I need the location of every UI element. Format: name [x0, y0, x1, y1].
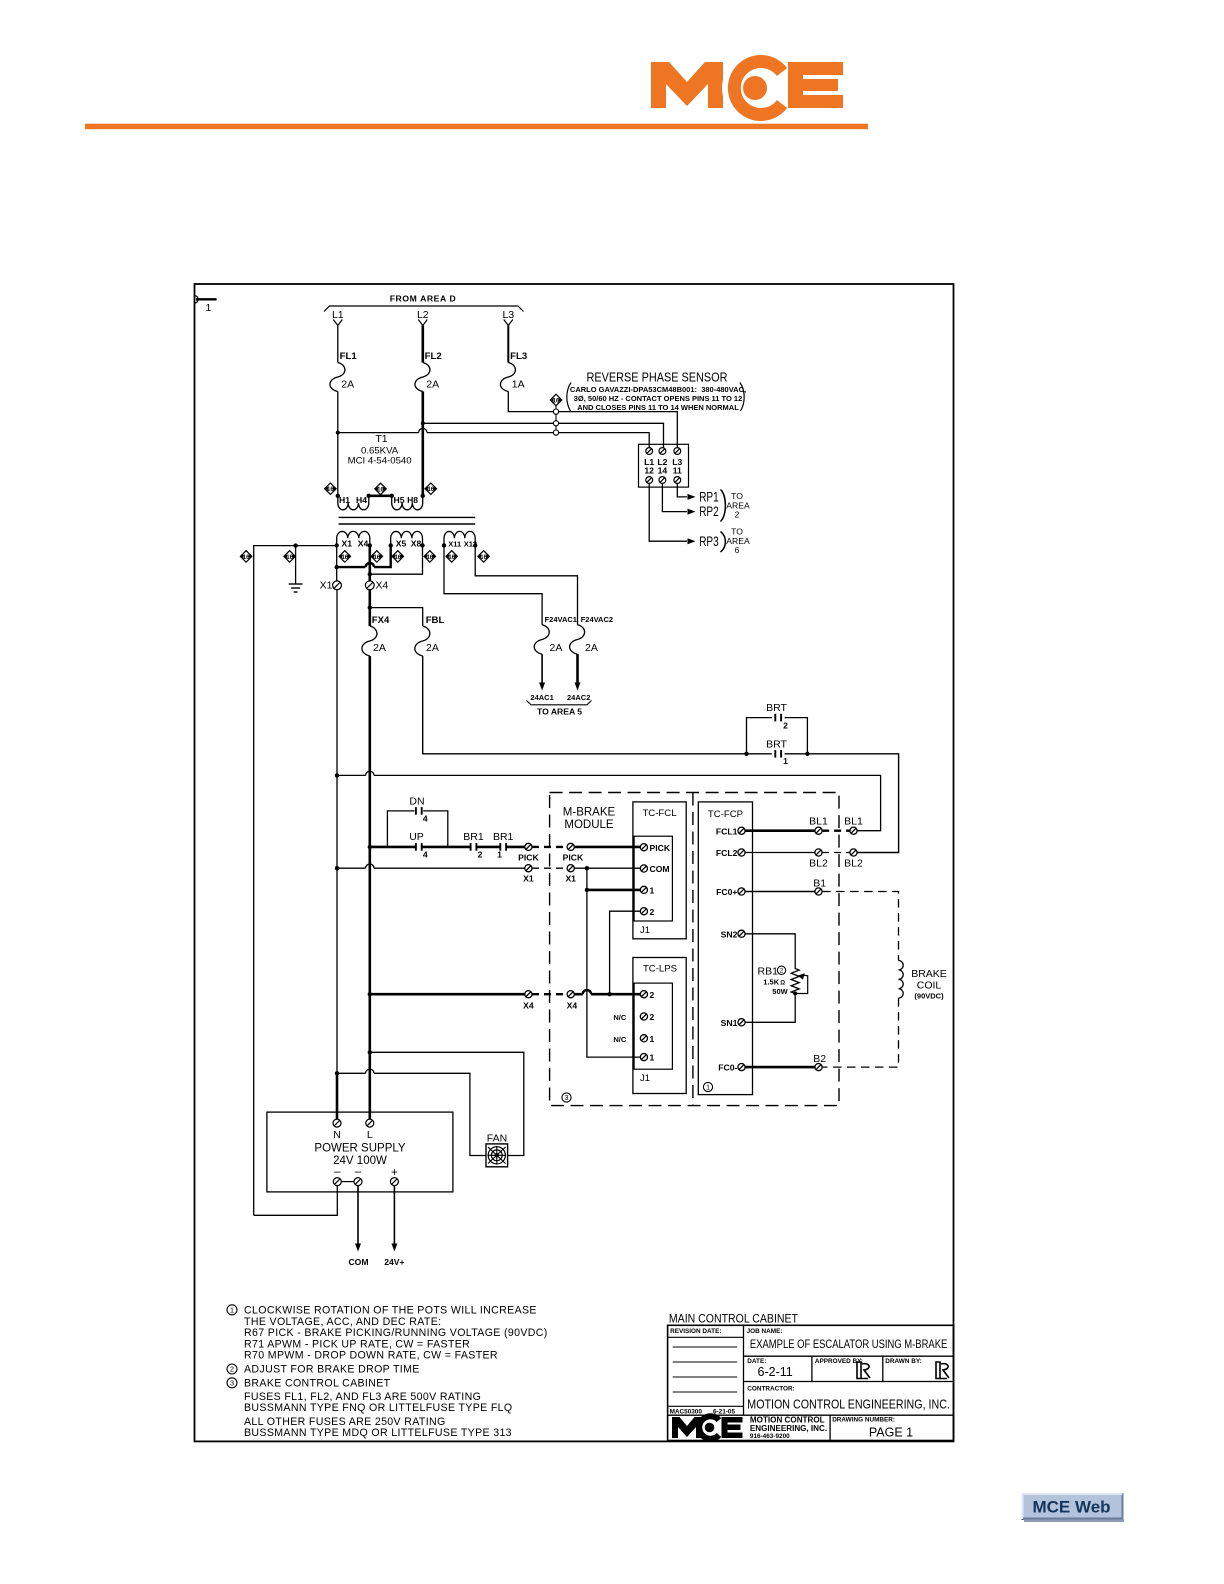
connector J1 TC-LPS: [634, 983, 672, 1069]
svg-text:1: 1: [650, 1034, 655, 1044]
svg-text:SN1: SN1: [721, 1018, 738, 1028]
svg-text:RP2: RP2: [699, 504, 719, 519]
svg-text:BR1: BR1: [463, 831, 484, 843]
svg-text:Ω: Ω: [780, 980, 785, 986]
svg-text:DRAWING NUMBER:: DRAWING NUMBER:: [832, 1417, 895, 1424]
note 3 marker: [562, 1093, 571, 1102]
terminal FC0-: [738, 1064, 745, 1071]
svg-text:MCE Web: MCE Web: [1032, 1498, 1110, 1517]
svg-text:4: 4: [423, 813, 428, 823]
connector J1 TC-FCL: [634, 836, 672, 921]
svg-text:MAIN CONTROL CABINET: MAIN CONTROL CABINET: [669, 1314, 798, 1326]
svg-text:EXAMPLE OF ESCALATOR USING M-B: EXAMPLE OF ESCALATOR USING M-BRAKE: [750, 1339, 948, 1351]
svg-text:MAC50300: MAC50300: [670, 1409, 703, 1416]
svg-text:J1: J1: [640, 1073, 650, 1084]
wire X11 to F24VAC1: [444, 545, 542, 624]
wire L3 drop: [507, 326, 509, 363]
svg-text:24AC2: 24AC2: [567, 693, 590, 702]
svg-text:2: 2: [780, 968, 784, 975]
op TC-FCL board: [633, 802, 686, 939]
wire B1 to brake coil (dashed): [822, 892, 898, 961]
svg-text:TC-FCP: TC-FCP: [708, 809, 743, 820]
wire COM junction to terminal 1: [586, 868, 588, 890]
svg-text:J1: J1: [640, 925, 650, 936]
svg-text:1: 1: [230, 1306, 234, 1315]
svg-text:1.5K: 1.5K: [763, 977, 779, 986]
terminal BL2 inner: [815, 849, 822, 856]
svg-text:X1: X1: [342, 538, 353, 548]
wire FC0+ to B1: [745, 891, 815, 893]
T1 secondary winding X5-X8: [391, 531, 423, 545]
svg-text:BRT: BRT: [766, 702, 787, 714]
svg-text:16: 16: [377, 487, 384, 493]
svg-text:CONTRACTOR:: CONTRACTOR:: [747, 1385, 794, 1392]
svg-text:1: 1: [650, 1053, 655, 1063]
svg-text:N/C: N/C: [613, 1035, 627, 1044]
terminal L: [366, 1119, 374, 1127]
svg-text:X8: X8: [411, 538, 422, 548]
svg-text:1: 1: [206, 302, 212, 314]
svg-text:T1: T1: [375, 433, 387, 445]
wire B2 to FC0-: [745, 1066, 815, 1069]
fuse FL1 2A: [330, 363, 345, 392]
svg-text:H4: H4: [356, 495, 367, 505]
note 1: [227, 1305, 237, 1315]
wire PICK to TC-FCL: [574, 846, 640, 849]
contact UP 4: [416, 843, 422, 851]
svg-text:16: 16: [373, 555, 380, 561]
fuse FX4 2A: [362, 626, 377, 656]
wire X1 to left rail: [254, 546, 337, 1216]
terminal BL2 outer: [850, 849, 857, 856]
svg-text:F24VAC1: F24VAC1: [545, 615, 577, 624]
note 1 marker: [703, 1082, 712, 1091]
svg-text:FL3: FL3: [510, 351, 527, 362]
svg-text:16: 16: [448, 555, 455, 561]
terminal X1 left: [525, 865, 532, 872]
svg-text:1: 1: [497, 849, 502, 859]
svg-text:2: 2: [783, 721, 788, 731]
svg-text:B2: B2: [813, 1053, 826, 1065]
node RP2: [662, 483, 687, 511]
page connector 1: [195, 296, 217, 314]
svg-text:FC0-: FC0-: [718, 1063, 737, 1073]
svg-text:FL1: FL1: [340, 351, 358, 362]
reverse phase sensor terminal block: [639, 444, 689, 487]
fuse FL2 2A: [415, 363, 430, 392]
svg-text:916-463-9200: 916-463-9200: [750, 1433, 790, 1440]
wire SN1 to RB1: [745, 996, 795, 1023]
sensor description: [567, 383, 746, 412]
contact DN 4 bypass: [387, 811, 414, 847]
wire L2 drop: [421, 326, 424, 363]
svg-text:24V 100W: 24V 100W: [333, 1155, 387, 1167]
svg-text:2: 2: [650, 990, 655, 1000]
fuse F24VAC1 2A: [534, 625, 549, 655]
svg-text:L: L: [367, 1129, 373, 1141]
signature drawn: [936, 1362, 949, 1379]
T1 primary winding H5-H8: [392, 496, 423, 510]
MCE logo black: [672, 1415, 743, 1441]
contact BR1 1: [500, 843, 506, 851]
svg-text:24V+: 24V+: [384, 1257, 404, 1267]
svg-text:COM: COM: [348, 1257, 368, 1267]
svg-text:3Ø, 50/60 HZ - CONTACT OPENS P: 3Ø, 50/60 HZ - CONTACT OPENS PINS 11 TO …: [574, 394, 743, 403]
svg-text:2: 2: [230, 1365, 234, 1374]
svg-text:–: –: [334, 1166, 341, 1178]
op TC-FCP board: [698, 802, 752, 1095]
svg-text:BL1: BL1: [844, 816, 863, 828]
wire FBL to BRT: [423, 656, 772, 754]
svg-text:COM: COM: [650, 864, 670, 874]
gauge tags 16 secondary: [240, 551, 252, 563]
terminal SN2: [738, 930, 745, 937]
svg-text:2A: 2A: [373, 642, 386, 654]
svg-text:BUSSMANN TYPE FNQ OR LITTELFUS: BUSSMANN TYPE FNQ OR LITTELFUSE TYPE FLQ: [244, 1402, 513, 1414]
svg-text:16: 16: [341, 555, 348, 561]
wire X1 column: [336, 545, 338, 580]
TO AREA 2 bracket: [721, 490, 750, 522]
svg-text:BL1: BL1: [809, 816, 828, 828]
orange rule: [85, 124, 868, 130]
svg-text:R67 PICK - BRAKE PICKING/RUNNI: R67 PICK - BRAKE PICKING/RUNNING VOLTAGE…: [244, 1327, 548, 1339]
node RP3: [649, 483, 687, 541]
wire L3 to sensor: [508, 391, 677, 447]
svg-text:1: 1: [706, 1083, 710, 1092]
terminal X4: [365, 581, 374, 590]
wire PICK row: [370, 846, 525, 849]
TO AREA 5 bracket: [527, 701, 592, 705]
svg-text:X4: X4: [567, 1000, 578, 1010]
svg-text:SN2: SN2: [721, 929, 738, 939]
contact BRT 1: [775, 750, 781, 758]
wire X4-X8 link: [370, 545, 423, 574]
T1 secondary winding X1-X4: [337, 531, 370, 545]
M-BRAKE MODULE enclosure: [550, 793, 839, 1106]
terminal PICK module: [567, 843, 574, 850]
svg-text:B1: B1: [813, 877, 826, 889]
svg-text:PAGE 1: PAGE 1: [869, 1426, 913, 1440]
svg-text:REVERSE PHASE SENSOR: REVERSE PHASE SENSOR: [587, 371, 728, 385]
svg-text:2A: 2A: [426, 642, 439, 654]
svg-text:APPROVED BY:: APPROVED BY:: [815, 1358, 863, 1365]
wire X1 rail to FAN: [337, 1072, 366, 1074]
svg-text:POWER SUPPLY: POWER SUPPLY: [314, 1142, 405, 1154]
svg-text:PICK: PICK: [563, 853, 584, 863]
wire TC-FCL 2 drop: [610, 911, 641, 994]
svg-text:50W: 50W: [772, 987, 788, 996]
wire minus link: [341, 1181, 354, 1183]
terminal X1: [333, 581, 342, 590]
wire brake coil to B2 (dashed): [822, 998, 898, 1067]
node 24AC1: [541, 654, 543, 682]
terminal FC0+: [738, 888, 745, 895]
svg-text:6: 6: [735, 545, 740, 555]
svg-text:BRAKE CONTROL CABINET: BRAKE CONTROL CABINET: [244, 1377, 391, 1389]
terminal B1: [815, 888, 822, 895]
svg-text:2: 2: [650, 1012, 655, 1022]
signature approved: [857, 1362, 870, 1379]
terminal N: [333, 1119, 341, 1127]
svg-text:M-BRAKE: M-BRAKE: [563, 807, 616, 819]
terminal PICK left: [525, 843, 532, 850]
svg-text:AND CLOSES PINS 11 TO 14 WHEN: AND CLOSES PINS 11 TO 14 WHEN NORMAL: [577, 403, 739, 412]
svg-text:H8: H8: [407, 495, 418, 505]
svg-text:MOTION CONTROL ENGINEERING, IN: MOTION CONTROL ENGINEERING, INC.: [747, 1398, 950, 1412]
svg-text:FL2: FL2: [425, 351, 442, 362]
svg-text:2A: 2A: [341, 379, 354, 391]
svg-text:TO AREA 5: TO AREA 5: [537, 707, 582, 717]
svg-text:16: 16: [480, 555, 487, 561]
power supply box: [267, 1112, 453, 1192]
wire X4 to TC-LPS 2: [574, 993, 582, 996]
node RP1: [677, 483, 687, 497]
T1 core: [339, 516, 476, 518]
terminal B2: [815, 1064, 822, 1071]
wire L2 to H8: [421, 391, 424, 495]
wire X1 to COM: [574, 867, 640, 869]
svg-text:BUSSMANN TYPE MDQ OR LITTELFUS: BUSSMANN TYPE MDQ OR LITTELFUSE TYPE 313: [244, 1427, 512, 1439]
note 2: [227, 1364, 237, 1374]
svg-text:FC0+: FC0+: [716, 887, 737, 897]
svg-text:4: 4: [423, 849, 428, 859]
MCE Web button: [1022, 1494, 1124, 1523]
wire X1 to BL1: [337, 774, 366, 776]
svg-text:BRAKE: BRAKE: [911, 968, 947, 980]
svg-text:BR1: BR1: [493, 831, 514, 843]
terminal BL1 inner: [815, 827, 822, 834]
gauge tag 16 H1: [325, 483, 337, 495]
svg-text:X4: X4: [358, 538, 369, 548]
svg-text:1: 1: [783, 756, 788, 766]
svg-text:14: 14: [658, 466, 668, 476]
svg-text:FCL2: FCL2: [716, 848, 738, 858]
terminal BL1 outer: [850, 827, 857, 834]
svg-text:FBL: FBL: [426, 615, 445, 626]
svg-text:F24VAC2: F24VAC2: [581, 615, 613, 624]
svg-text:PICK: PICK: [518, 853, 539, 863]
svg-text:RB1: RB1: [758, 966, 779, 978]
svg-text:FCL1: FCL1: [716, 826, 738, 836]
ground: [289, 546, 303, 592]
svg-text:MCI 4-54-0540: MCI 4-54-0540: [348, 456, 412, 467]
svg-text:CARLO GAVAZZI-DPA53CM48B001:: CARLO GAVAZZI-DPA53CM48B001: 380-480VAC,: [570, 385, 746, 394]
svg-text:X1: X1: [565, 873, 576, 883]
T1 secondary winding X11-X12: [444, 531, 475, 545]
fuse FL3 1A: [500, 363, 515, 392]
svg-text:THE VOLTAGE, ACC, AND DEC RATE: THE VOLTAGE, ACC, AND DEC RATE:: [244, 1316, 441, 1328]
node 24V+: [393, 1186, 395, 1244]
svg-text:TC-LPS: TC-LPS: [643, 964, 677, 975]
H4-H5 link: [369, 494, 392, 497]
terminal SN1: [738, 1019, 745, 1026]
svg-text:RP1: RP1: [699, 490, 719, 505]
svg-text:FAN: FAN: [487, 1133, 507, 1145]
svg-text:JOB NAME:: JOB NAME:: [747, 1328, 783, 1335]
wire FCL1 to BL1: [745, 829, 815, 832]
terminal X4 module: [567, 991, 574, 998]
svg-text:–: –: [355, 1166, 362, 1178]
svg-text:REVISION DATE:: REVISION DATE:: [670, 1328, 721, 1335]
svg-text:X1: X1: [320, 580, 333, 592]
title block frame: [668, 1325, 954, 1440]
fuse FBL 2A: [415, 626, 430, 656]
wire FCL2 to BL2: [745, 852, 815, 854]
gauge tag 16 H4-H5: [375, 483, 387, 495]
wire L1 drop: [337, 326, 339, 363]
terminal X1 module: [567, 865, 574, 872]
wire minus to left rail: [254, 1186, 338, 1216]
svg-text:X4: X4: [523, 1000, 534, 1010]
svg-text:R70 MPWM - DROP DOWN RATE, CW: R70 MPWM - DROP DOWN RATE, CW = FASTER: [244, 1349, 498, 1361]
svg-text:16: 16: [426, 555, 433, 561]
page border: [195, 284, 954, 1441]
terminal FCL1: [738, 827, 745, 834]
svg-text:BL2: BL2: [809, 858, 828, 870]
svg-text:2: 2: [650, 907, 655, 917]
svg-text:MODULE: MODULE: [564, 819, 614, 831]
wire L1 to H1: [337, 391, 339, 495]
shield tag 16: [550, 394, 562, 406]
wire FX4/FBL split: [370, 608, 423, 626]
contact BR1 2: [471, 843, 477, 851]
wire X1 row: [337, 867, 366, 869]
svg-text:TO: TO: [731, 491, 743, 501]
wire SN2 to RB1: [745, 934, 795, 967]
node 24AC2: [576, 654, 579, 682]
transformer T1 label: [348, 433, 412, 467]
svg-text:N/C: N/C: [613, 1013, 627, 1022]
wire X4 row: [370, 993, 525, 996]
node COM: [357, 1186, 359, 1244]
svg-text:TC-FCL: TC-FCL: [642, 808, 677, 819]
svg-text:2: 2: [478, 849, 483, 859]
svg-text:16: 16: [243, 555, 250, 561]
svg-text:H5: H5: [394, 495, 405, 505]
T1 primary winding H1-H4: [338, 496, 369, 510]
terminal FCL2: [738, 849, 745, 856]
svg-text:TO: TO: [731, 527, 743, 537]
svg-text:6-2-11: 6-2-11: [758, 1365, 793, 1379]
svg-text:3: 3: [230, 1379, 234, 1388]
wire X4 column: [368, 545, 371, 581]
wire X4 rail to FAN: [370, 1052, 524, 1155]
svg-text:UP: UP: [409, 831, 424, 843]
contact BRT 2 bypass: [747, 718, 772, 754]
svg-text:X1: X1: [523, 873, 534, 883]
gauge tag 16 H8: [425, 483, 437, 495]
svg-text:DN: DN: [409, 796, 424, 808]
svg-text:ENGINEERING, INC.: ENGINEERING, INC.: [750, 1423, 827, 1433]
svg-text:24AC1: 24AC1: [530, 693, 553, 702]
TO AREA 6 bracket: [721, 527, 750, 555]
FROM AREA D bracket: [324, 306, 524, 312]
svg-text:BL2: BL2: [844, 858, 863, 870]
svg-text:FX4: FX4: [372, 615, 390, 626]
svg-text:ADJUST FOR BRAKE DROP TIME: ADJUST FOR BRAKE DROP TIME: [244, 1364, 420, 1376]
svg-text:16: 16: [553, 398, 560, 404]
svg-text:N: N: [333, 1129, 341, 1141]
svg-text:1: 1: [650, 886, 655, 896]
svg-text:2: 2: [735, 510, 740, 520]
svg-text:CLOCKWISE ROTATION OF THE POTS: CLOCKWISE ROTATION OF THE POTS WILL INCR…: [244, 1304, 537, 1316]
op TC-LPS board: [633, 958, 686, 1094]
svg-text:2A: 2A: [585, 642, 598, 654]
svg-text:DRAWN BY:: DRAWN BY:: [885, 1358, 921, 1365]
svg-text:BRT: BRT: [766, 738, 787, 750]
svg-text:12: 12: [644, 466, 654, 476]
svg-text:X5: X5: [396, 538, 407, 548]
svg-text:11: 11: [673, 466, 682, 476]
svg-text:COIL: COIL: [917, 980, 942, 992]
svg-text:16: 16: [286, 555, 293, 561]
svg-text:2A: 2A: [426, 379, 439, 391]
wire COM junction to TC-LPS 1: [587, 890, 640, 1057]
wire X1-X5 link: [337, 566, 366, 568]
fuse F24VAC2 2A: [570, 625, 585, 655]
wire L1 to sensor: [338, 432, 419, 434]
svg-text:FROM AREA D: FROM AREA D: [390, 294, 457, 304]
svg-text:(90VDC): (90VDC): [914, 992, 944, 1001]
note 3: [227, 1378, 237, 1388]
svg-text:16: 16: [327, 487, 334, 493]
terminal X4 left: [525, 991, 532, 998]
module divider: [692, 793, 694, 1106]
resistor RB1 1.5K 50W: [758, 966, 808, 996]
svg-text:PICK: PICK: [650, 843, 671, 853]
wire L2 to sensor: [423, 423, 664, 447]
wire X4 column lower: [368, 656, 371, 1123]
svg-text:RP3: RP3: [699, 534, 719, 549]
svg-text:2A: 2A: [550, 642, 563, 654]
wire X12 to F24VAC2: [475, 545, 577, 624]
MCE logo: [651, 55, 843, 121]
brake coil: [899, 961, 904, 999]
svg-text:16: 16: [394, 555, 401, 561]
svg-text:16: 16: [427, 487, 434, 493]
svg-text:X11: X11: [448, 539, 461, 548]
svg-text:X4: X4: [376, 580, 389, 592]
svg-text:3: 3: [565, 1093, 569, 1102]
svg-text:H1: H1: [339, 495, 350, 505]
svg-text:1A: 1A: [512, 379, 525, 391]
